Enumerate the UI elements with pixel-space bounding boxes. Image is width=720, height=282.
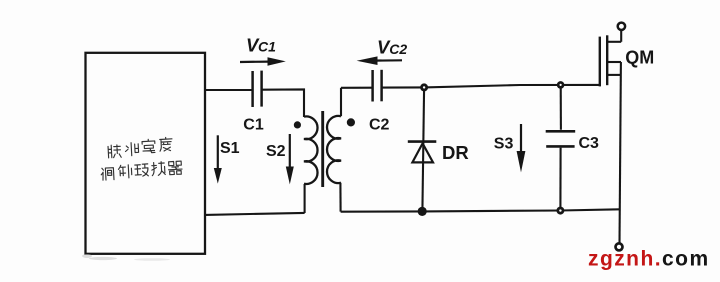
svg-text:C2: C2 <box>369 117 390 134</box>
svg-text:S1: S1 <box>220 140 240 157</box>
svg-text:zgznh.com: zgznh.com <box>588 247 710 270</box>
svg-text:S2: S2 <box>266 143 286 160</box>
svg-text:S3: S3 <box>494 135 514 152</box>
svg-text:QM: QM <box>625 48 654 68</box>
svg-text:C2: C2 <box>389 41 407 57</box>
svg-text:C1: C1 <box>258 39 276 55</box>
svg-text:DR: DR <box>442 142 469 163</box>
svg-text:C1: C1 <box>243 117 264 134</box>
svg-text:C3: C3 <box>579 135 600 152</box>
